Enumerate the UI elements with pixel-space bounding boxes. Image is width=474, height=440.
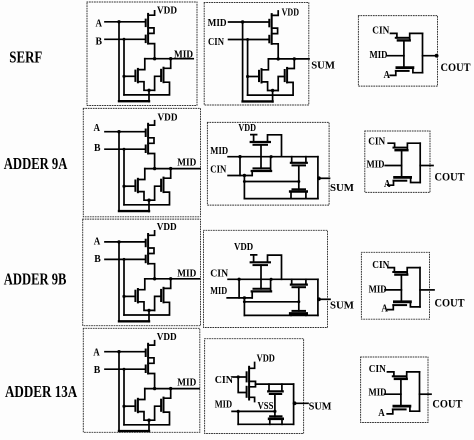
svg-text:A: A [94, 236, 101, 248]
svg-text:VSS: VSS [258, 400, 274, 412]
svg-text:ADDER 13A: ADDER 13A [5, 382, 77, 401]
svg-text:B: B [94, 142, 101, 154]
svg-text:SUM: SUM [309, 401, 332, 413]
svg-text:MID: MID [367, 159, 385, 171]
svg-text:COUT: COUT [435, 296, 465, 310]
svg-text:VDD: VDD [157, 5, 177, 17]
svg-text:SERF: SERF [9, 48, 42, 67]
svg-text:A: A [93, 347, 100, 359]
svg-text:CIN: CIN [210, 164, 226, 176]
svg-text:VDD: VDD [238, 122, 256, 134]
svg-text:MID: MID [177, 157, 196, 169]
svg-text:CIN: CIN [215, 374, 233, 386]
svg-text:CIN: CIN [369, 363, 386, 375]
svg-text:ADDER 9A: ADDER 9A [4, 154, 68, 173]
svg-text:VDD: VDD [257, 353, 275, 365]
svg-text:MID: MID [215, 399, 232, 411]
svg-text:CIN: CIN [368, 136, 385, 148]
svg-text:MID: MID [177, 268, 196, 280]
svg-text:MID: MID [210, 285, 227, 297]
svg-text:MID: MID [210, 145, 228, 157]
svg-text:VDD: VDD [234, 241, 253, 253]
svg-text:COUT: COUT [441, 60, 471, 74]
svg-text:A: A [384, 178, 391, 190]
svg-text:B: B [94, 364, 101, 376]
svg-text:VDD: VDD [282, 7, 299, 19]
svg-text:SUM: SUM [311, 60, 335, 72]
svg-text:SUM: SUM [330, 182, 355, 194]
svg-text:A: A [381, 303, 388, 315]
svg-text:B: B [96, 36, 103, 48]
svg-text:MID: MID [177, 377, 196, 389]
svg-text:CIN: CIN [210, 268, 228, 280]
svg-text:A: A [378, 407, 385, 419]
svg-text:COUT: COUT [435, 170, 465, 184]
svg-text:A: A [94, 122, 101, 134]
svg-text:SUM: SUM [330, 300, 355, 312]
svg-text:VDD: VDD [158, 112, 178, 124]
svg-text:MID: MID [208, 17, 227, 29]
svg-text:CIN: CIN [208, 36, 224, 48]
svg-text:MID: MID [369, 284, 387, 296]
svg-text:B: B [94, 253, 101, 265]
svg-text:VDD: VDD [157, 221, 177, 233]
svg-text:MID: MID [174, 49, 193, 61]
svg-text:COUT: COUT [432, 397, 462, 411]
svg-text:A: A [96, 18, 103, 30]
svg-text:MID: MID [369, 387, 387, 399]
svg-text:MID: MID [370, 49, 388, 61]
svg-text:CIN: CIN [372, 25, 389, 37]
svg-text:CIN: CIN [372, 259, 389, 271]
svg-text:A: A [384, 69, 391, 81]
svg-text:VDD: VDD [157, 331, 177, 343]
svg-text:ADDER 9B: ADDER 9B [4, 269, 67, 288]
